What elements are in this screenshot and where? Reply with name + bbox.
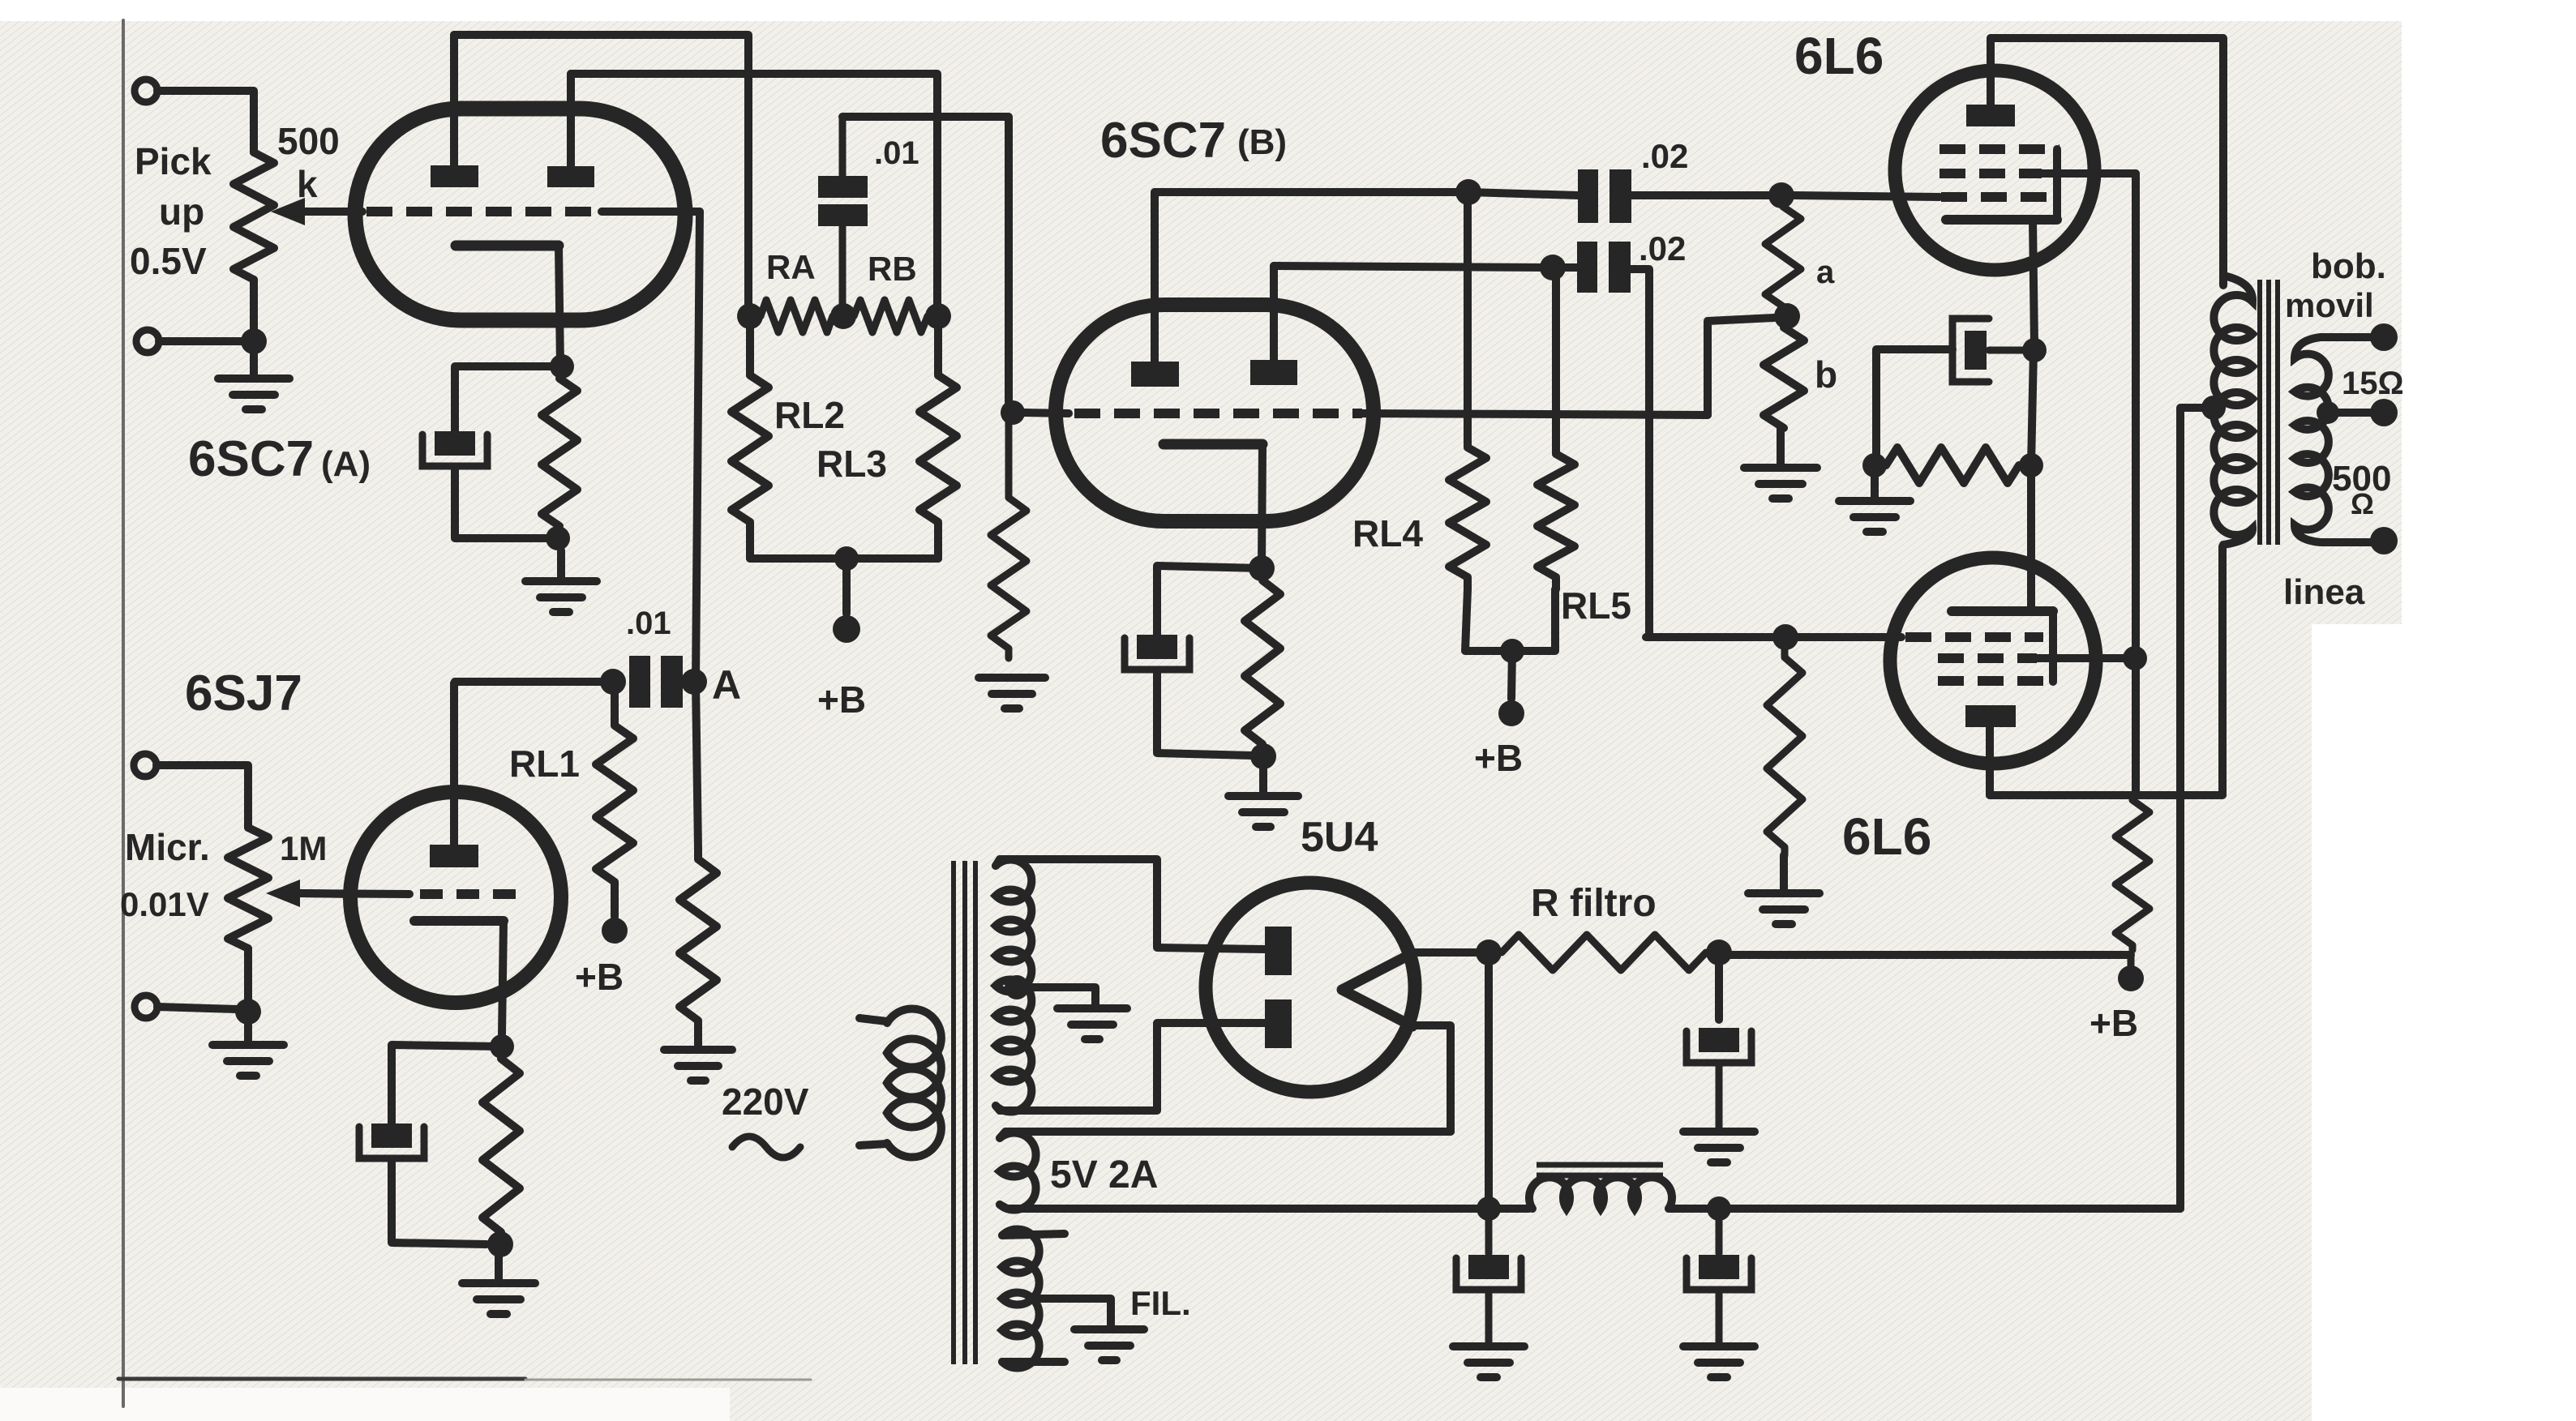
grid row 6SJ7 — [298, 893, 409, 894]
ground HV center tap — [1057, 1004, 1127, 1012]
filter choke — [1529, 1177, 1672, 1209]
resistor a — [1765, 195, 1801, 316]
svg-text:15Ω: 15Ω — [2342, 366, 2404, 401]
node A left — [600, 669, 626, 695]
wire anode B1 to C02a — [1155, 188, 1468, 196]
screen bus — [2132, 173, 2140, 792]
anode tab A2 — [547, 166, 594, 187]
wire — [1017, 987, 1095, 1005]
resistor cathode 6L6 — [1886, 447, 2019, 483]
page edge line left — [122, 20, 125, 1406]
wire — [1715, 965, 1723, 1020]
svg-text:Ω: Ω — [2351, 487, 2374, 520]
svg-text:6L6: 6L6 — [1794, 27, 1884, 85]
grid leak resistor 6SC7B — [991, 413, 1027, 658]
terminal bob movil top — [2370, 323, 2398, 351]
anode tab B2 — [1250, 360, 1297, 385]
wire — [1511, 651, 1512, 699]
wire — [157, 1007, 238, 1009]
screen row 6L6 lower — [1938, 653, 2037, 663]
node screen lower — [2123, 646, 2147, 670]
wire — [842, 559, 851, 614]
cathode 6SJ7 — [414, 916, 504, 926]
svg-text:a: a — [1816, 255, 1835, 290]
wire HV top to 5U4 anode — [996, 859, 1265, 949]
svg-text:(A): (A) — [321, 444, 371, 484]
svg-text:220V: 220V — [722, 1081, 809, 1123]
wire — [1876, 349, 1952, 454]
svg-text:0.5V: 0.5V — [130, 240, 207, 282]
capacitor .02 b — [1577, 242, 1597, 293]
svg-text:6SC7: 6SC7 — [1100, 113, 1226, 169]
svg-text:(B): (B) — [1237, 122, 1287, 162]
svg-text:+B: +B — [2090, 1002, 2138, 1044]
svg-text:1M: 1M — [280, 829, 327, 867]
node — [487, 1231, 513, 1257]
node grid 6L6 lower — [1772, 624, 1798, 650]
ground — [1259, 768, 1267, 796]
wire — [455, 468, 546, 538]
wire top bus 2 — [571, 74, 937, 310]
node .02b left — [1540, 255, 1566, 280]
ground — [979, 674, 1045, 682]
capacitor cathode bypass 6SJ7 — [371, 1124, 412, 1148]
terminal +B — [833, 615, 860, 643]
capacitor cathode bypass B — [1137, 635, 1177, 659]
svg-text:RA: RA — [766, 248, 816, 286]
svg-text:linea: linea — [2283, 572, 2365, 612]
ground — [694, 1029, 702, 1050]
resistor cathode A — [542, 379, 577, 526]
node junction — [241, 328, 267, 354]
capacitor cathode bypass A — [435, 431, 475, 456]
anode tab B1 — [1131, 362, 1179, 387]
resistor RB — [854, 300, 928, 332]
wire — [392, 1160, 486, 1244]
wire filament bottom to 5V — [1412, 1025, 1451, 1132]
wire R filtro output — [1719, 951, 2131, 959]
wire sec mid — [2328, 409, 2372, 417]
tube 6SC7(A) envelope — [355, 109, 685, 320]
wire FIL bottom stub — [1002, 1358, 1065, 1366]
svg-text:RL2: RL2 — [774, 394, 845, 436]
terminal linea — [2370, 527, 2398, 554]
svg-text:b: b — [1815, 353, 1837, 396]
tube 5U4 envelope — [1206, 883, 1415, 1092]
wire anode B2 to C02b — [1274, 266, 1553, 268]
node cathode A — [550, 354, 574, 379]
svg-text:Pick: Pick — [135, 140, 212, 182]
power transformer primary 220V — [887, 1009, 941, 1158]
node — [235, 999, 261, 1025]
ground — [1683, 1342, 1755, 1350]
svg-text:RL3: RL3 — [817, 443, 887, 485]
output transformer core — [2257, 280, 2262, 545]
cathode rail to lower tube — [2027, 465, 2035, 611]
wire — [392, 1045, 502, 1124]
resistor RA — [761, 300, 833, 332]
tube 6L6 upper envelope — [1895, 71, 2094, 270]
wiper arrow 500k — [271, 198, 305, 225]
capacitor filter 1 — [1699, 1028, 1739, 1052]
potentiometer 1M — [228, 828, 268, 948]
svg-text:6L6: 6L6 — [1842, 807, 1931, 866]
resistor cathode B — [1245, 580, 1280, 744]
resistor b — [1764, 316, 1804, 428]
wire — [1157, 566, 1262, 635]
node — [1477, 1196, 1501, 1221]
resistor R filtro — [1502, 935, 1706, 970]
wire — [1485, 965, 1493, 1198]
svg-text:5V 2A: 5V 2A — [1050, 1153, 1158, 1196]
output transformer secondary — [2295, 337, 2374, 542]
power transformer core — [951, 861, 956, 1364]
terminal +B screens — [2118, 965, 2144, 991]
tube 6SJ7 envelope — [350, 792, 561, 1003]
wire — [156, 765, 248, 828]
node — [834, 546, 859, 571]
cathode 6SC7B — [1164, 439, 1262, 450]
svg-text:.02: .02 — [1641, 137, 1688, 175]
node — [1862, 453, 1887, 477]
svg-text:Micr.: Micr. — [125, 826, 210, 868]
cathode 6SC7A — [456, 241, 559, 251]
svg-text:k: k — [297, 163, 318, 205]
5V 2A winding — [1000, 1133, 1036, 1210]
resistor RL4 — [1449, 192, 1486, 589]
plate 6SJ7 — [430, 845, 478, 867]
resistor cathode 6SJ7 — [482, 1059, 520, 1232]
potentiometer 500k — [234, 152, 274, 280]
node grid B — [1001, 400, 1025, 425]
screen row 6L6 upper — [1940, 169, 2042, 178]
wire — [157, 91, 254, 152]
svg-text:.01: .01 — [874, 135, 919, 171]
resistor RL2 — [731, 327, 769, 559]
svg-text:6SC7: 6SC7 — [188, 431, 314, 487]
wire 5V bottom (B+ rail) — [1000, 1205, 1529, 1209]
capacitor .01 (RA/RB) — [818, 176, 868, 198]
node cathode B — [1249, 555, 1275, 581]
svg-text:0.01V: 0.01V — [120, 885, 209, 923]
anode bar 5U4 bottom — [1265, 999, 1292, 1048]
svg-text:+B: +B — [817, 678, 866, 721]
svg-text:RL1: RL1 — [509, 743, 580, 785]
svg-text:+B: +B — [575, 956, 624, 998]
suppressor row 6L6 lower — [1938, 676, 2045, 686]
node R filtro right — [1706, 939, 1732, 965]
wire center tap — [2180, 408, 2214, 1209]
terminal micr gnd — [135, 995, 157, 1018]
wire — [1157, 671, 1253, 755]
svg-text:movil: movil — [2285, 286, 2374, 324]
ground — [1777, 428, 1785, 468]
wire filament top out — [1411, 948, 1476, 957]
wire 5V top — [1000, 1132, 1451, 1138]
node — [1707, 1196, 1731, 1221]
resistor RL5 — [1537, 268, 1575, 589]
node A — [681, 669, 707, 695]
terminal micr hot — [134, 754, 156, 777]
wire B+ rail right — [1669, 1205, 2180, 1213]
wire — [455, 366, 562, 431]
svg-text:.01: .01 — [626, 606, 671, 641]
tube 6SC7(B) envelope — [1056, 305, 1374, 521]
grid line (dashed) 6SC7A — [366, 207, 602, 216]
control grid row 6L6 upper — [1794, 195, 1940, 197]
plate 6L6 lower — [1965, 705, 2016, 727]
suppressor bracket 6L6 lower — [2049, 611, 2057, 682]
node RB right — [925, 303, 951, 329]
suppressor row 6L6 upper — [1940, 144, 2060, 154]
cathode 6L6 lower — [1952, 606, 2053, 616]
node cathode 6L6 upper — [2022, 338, 2047, 362]
node sec mid tap — [2317, 401, 2339, 424]
control grid row 6L6 lower — [1646, 633, 1901, 641]
resistor RL1 — [596, 682, 633, 917]
wire — [250, 341, 258, 378]
output transformer primary — [2214, 276, 2252, 545]
cathode rail — [2031, 350, 2034, 465]
svg-text:500: 500 — [277, 120, 340, 162]
terminal 15 ohm — [2370, 399, 2398, 426]
node — [1500, 639, 1524, 663]
HV secondary winding — [996, 859, 1031, 1111]
resistor RL3 — [919, 327, 957, 559]
node center tap — [2201, 396, 2226, 420]
choke core — [1537, 1162, 1663, 1168]
node RA left — [737, 303, 763, 329]
ground — [1871, 473, 1879, 501]
wire HV bottom to 5U4 anode — [996, 1023, 1265, 1111]
svg-text:FIL.: FIL. — [1130, 1284, 1191, 1322]
svg-text:6SJ7: 6SJ7 — [185, 666, 302, 721]
FIL winding — [1002, 1230, 1039, 1368]
anode bar 5U4 top — [1265, 927, 1292, 975]
cathode 6L6 upper — [1946, 215, 2057, 225]
node grid 6L6 upper — [1768, 182, 1794, 208]
capacitor cathode 6L6 — [1965, 331, 1987, 370]
wire — [1708, 318, 1774, 415]
wire FIL center tap — [1031, 1299, 1111, 1325]
screen resistor — [2115, 795, 2150, 950]
wire plate to OT bottom — [1990, 546, 2222, 795]
ground — [1453, 1342, 1524, 1350]
wire FIL top stub — [1002, 1234, 1065, 1235]
node — [1250, 743, 1276, 769]
wiper arrow 1M — [266, 880, 300, 907]
ground — [557, 550, 565, 581]
node cathode 6SJ7 — [490, 1034, 514, 1059]
ground — [218, 375, 289, 383]
terminal pickup gnd — [136, 330, 159, 353]
wire — [244, 948, 252, 1012]
wire — [159, 337, 243, 345]
wire — [1465, 589, 1555, 651]
node — [546, 526, 570, 550]
terminal +B — [1498, 700, 1524, 726]
wire top bus 1 — [454, 35, 748, 310]
capacitor .01 coupling A — [629, 656, 650, 708]
wire — [250, 280, 258, 341]
capacitor .02 a — [1578, 169, 1598, 223]
node HV center tap — [1005, 975, 1029, 999]
grid resistor 6L6 lower — [1767, 649, 1802, 855]
capacitor filter 2 (left) — [1485, 1219, 1493, 1253]
svg-text:RL5: RL5 — [1561, 584, 1631, 627]
label ~ — [732, 1136, 800, 1158]
terminal pickup hot — [135, 79, 157, 102]
wire — [842, 117, 1009, 402]
capacitor filter 3 (right) — [1716, 1219, 1723, 1253]
filament 5U4 — [1342, 953, 1412, 1026]
ground FIL — [1074, 1325, 1144, 1333]
svg-text:5U4: 5U4 — [1301, 814, 1378, 861]
grid feed 6SC7A vertical — [696, 212, 700, 850]
ground — [1683, 1128, 1755, 1136]
tube 6L6 lower envelope — [1890, 558, 2096, 764]
ground — [1780, 855, 1788, 893]
plate 6L6 upper — [1966, 105, 2015, 126]
node RA-RB mid — [830, 303, 856, 329]
grid line (dashed) 6SC7B — [1024, 413, 1069, 413]
node .02a left — [1455, 179, 1481, 205]
svg-text:RB: RB — [868, 250, 917, 288]
node — [2019, 453, 2043, 477]
ground — [495, 1256, 503, 1283]
ground — [244, 1024, 252, 1045]
svg-text:R filtro: R filtro — [1531, 882, 1657, 925]
svg-text:RL4: RL4 — [1352, 512, 1423, 554]
svg-text:A: A — [712, 662, 741, 708]
svg-text:bob.: bob. — [2311, 246, 2386, 286]
anode tab A1 — [431, 165, 478, 187]
terminal +B RL1 — [602, 918, 628, 944]
svg-text:up: up — [159, 190, 204, 233]
svg-text:.02: .02 — [1639, 229, 1686, 268]
node a-b — [1774, 303, 1800, 329]
grid leak resistor (A node) — [679, 850, 717, 1029]
wire — [2128, 955, 2135, 966]
wire — [750, 554, 938, 563]
page edge line bottom — [118, 1377, 525, 1381]
wire plate to A-node — [454, 682, 601, 683]
wire plate to OT top — [1991, 38, 2223, 285]
svg-text:+B: +B — [1474, 737, 1523, 779]
node R filtro left — [1476, 939, 1502, 965]
